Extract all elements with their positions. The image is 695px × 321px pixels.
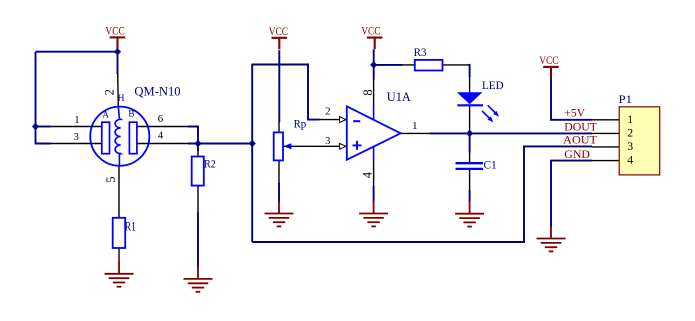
svg-text:C1: C1 — [484, 157, 497, 171]
svg-text:6: 6 — [158, 113, 164, 125]
svg-text:AOUT: AOUT — [563, 133, 597, 147]
svg-text:QM-N10: QM-N10 — [134, 85, 180, 99]
svg-text:VCC: VCC — [269, 24, 288, 38]
svg-text:DOUT: DOUT — [564, 120, 597, 134]
svg-text:VCC: VCC — [539, 53, 558, 67]
svg-text:R3: R3 — [414, 45, 427, 59]
svg-text:R2: R2 — [204, 157, 216, 171]
svg-text:4: 4 — [627, 154, 633, 167]
svg-text:H: H — [118, 94, 125, 104]
svg-text:LED: LED — [482, 78, 504, 92]
svg-text:2: 2 — [103, 89, 117, 95]
svg-text:VCC: VCC — [105, 24, 124, 38]
svg-text:3: 3 — [74, 131, 79, 143]
svg-text:1: 1 — [627, 113, 633, 126]
svg-text:1: 1 — [412, 120, 417, 132]
svg-text:R1: R1 — [125, 219, 136, 233]
svg-text:4: 4 — [361, 171, 375, 178]
svg-text:U1A: U1A — [387, 90, 411, 104]
svg-text:1: 1 — [74, 114, 79, 126]
svg-text:VCC: VCC — [361, 24, 380, 38]
svg-text:+5V: +5V — [564, 105, 585, 119]
svg-text:3: 3 — [627, 140, 633, 153]
svg-text:B: B — [128, 109, 134, 119]
svg-text:Rp: Rp — [294, 117, 307, 131]
svg-text:P1: P1 — [619, 92, 633, 106]
svg-text:GND: GND — [564, 147, 590, 161]
svg-text:2: 2 — [627, 127, 633, 140]
svg-text:8: 8 — [361, 89, 375, 95]
svg-text:A: A — [102, 111, 109, 121]
svg-text:5: 5 — [104, 177, 118, 183]
svg-text:2: 2 — [325, 106, 330, 118]
svg-text:4: 4 — [158, 130, 164, 142]
svg-text:3: 3 — [325, 135, 330, 147]
